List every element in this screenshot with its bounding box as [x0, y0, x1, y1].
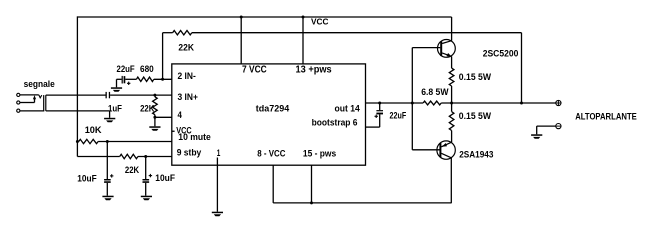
resistor R2 22K vertical [153, 97, 158, 115]
svg-text:7 VCC: 7 VCC [242, 64, 267, 75]
resistor R5 22K stby [120, 154, 138, 158]
transistor Q2 2SA1943 [437, 141, 455, 159]
node stby cap junction [144, 155, 147, 158]
wire C4 drop [106, 142, 108, 180]
wire pin8 drop [272, 165, 274, 203]
node pin3 junction [153, 94, 156, 97]
wire pin13 +pws drop [302, 17, 304, 64]
node mute row left junction [76, 140, 79, 143]
svg-text:10uF: 10uF [155, 173, 175, 184]
wire C2 ground lead [116, 79, 118, 87]
svg-text:22K: 22K [178, 43, 194, 54]
svg-text:bootstrap 6: bootstrap 6 [312, 118, 358, 129]
node bases junction [411, 102, 414, 105]
node emitters junction [450, 102, 453, 105]
svg-text:9 stby: 9 stby [177, 148, 202, 159]
wire pin15 drop [311, 165, 313, 203]
svg-text:22uF: 22uF [117, 64, 135, 75]
ground sleeve [104, 118, 115, 120]
connector J1 terminal tip [17, 93, 20, 96]
svg-text:8 - VCC: 8 - VCC [257, 149, 285, 160]
wire Q1 collector to VCC [451, 17, 453, 41]
wire mute row to pin10 [98, 141, 172, 143]
ground pin4 [149, 126, 160, 128]
wire jack switch arrow stem [34, 99, 36, 103]
svg-text:10K: 10K [85, 125, 102, 136]
svg-text:tda7294: tda7294 [256, 103, 290, 114]
svg-text:13 +pws: 13 +pws [296, 64, 333, 75]
polarity plus C4 [110, 175, 113, 177]
capacitor C6 plate thick [376, 113, 383, 115]
wire sleeve ground drop [109, 111, 111, 118]
svg-text:2SA1943: 2SA1943 [459, 149, 493, 160]
wire pin7 VCC drop [240, 17, 242, 64]
ground speaker [531, 134, 542, 136]
wire bases riser [411, 48, 413, 150]
svg-text:0.15 5W: 0.15 5W [459, 111, 492, 122]
svg-text:6.8 5W: 6.8 5W [421, 87, 449, 98]
jack plug ring 1 [43, 95, 45, 111]
terminal speaker plus [556, 100, 561, 105]
svg-text:2SC5200: 2SC5200 [483, 48, 519, 59]
capacitor C2 22uF plate thin [122, 76, 123, 84]
wire Q1 emitter lead [451, 56, 453, 68]
resistor R6 6.8 5W [423, 101, 441, 105]
wire VCC top rail [77, 16, 451, 18]
node pin2 junction [161, 78, 164, 81]
node pin4 junction [153, 116, 156, 119]
node VCC junction pin7 tap [240, 16, 243, 19]
wire jack body bottom line [46, 110, 110, 112]
wire R6 to emitters junction [441, 102, 556, 104]
wire R3 to pin2 [154, 78, 172, 80]
svg-text:ALTOPARLANTE: ALTOPARLANTE [575, 112, 637, 123]
connector J1 terminal sleeve [17, 109, 20, 112]
wire Q1 base lead [412, 47, 440, 49]
wire jack switch lead [20, 102, 35, 104]
svg-text:0.15 5W: 0.15 5W [459, 72, 492, 83]
svg-text:VCC: VCC [311, 17, 328, 27]
jack switch contact v mark [39, 95, 42, 98]
polarity plus C5 [149, 175, 152, 177]
op-amp IC U1 tda7294 box [172, 64, 366, 165]
wire Q2 base lead [412, 149, 439, 151]
svg-text:1uF: 1uF [108, 103, 122, 114]
svg-text:15 - pws: 15 - pws [303, 149, 336, 160]
capacitor C5 10uF plates [142, 179, 149, 181]
wire pin14 out stub [366, 102, 424, 104]
capacitor C1 1uF plate b [109, 92, 110, 98]
jack switch arrow head [33, 95, 36, 99]
wire R8 to Q2 emitter [451, 131, 453, 143]
wire C6 top lead [379, 103, 381, 110]
transistor Q1 2SC5200 [438, 40, 456, 58]
connector J1 terminal switch [17, 101, 20, 104]
polarity plus C2 [127, 82, 130, 84]
svg-text:1: 1 [217, 148, 221, 159]
svg-text:10uF: 10uF [77, 173, 97, 184]
terminal speaker minus [556, 124, 561, 129]
wire jack tip lead [20, 94, 39, 96]
wire -vcc bottom rail [273, 202, 451, 204]
node feedback-output junction [520, 102, 523, 105]
capacitor C1 1uF plate a [106, 92, 107, 98]
wire Q2 collector drop [450, 158, 452, 203]
wire C1 to pin3 [110, 94, 172, 96]
wire C6 bottom lead [379, 114, 381, 127]
ground C4 [102, 196, 113, 198]
wire C5 drop [145, 157, 147, 180]
capacitor C6 22uF bootstrap plate thin [376, 110, 383, 111]
node -vcc junction [310, 201, 313, 204]
svg-text:10 mute: 10 mute [178, 132, 211, 143]
wire pin1 drop [216, 158, 218, 212]
polarity plus C6 [375, 115, 378, 117]
svg-text:2 IN-: 2 IN- [178, 71, 196, 82]
wire stby row left segment [77, 156, 119, 158]
resistor R7 0.15 5W upper [449, 68, 454, 86]
svg-text:680: 680 [140, 64, 154, 75]
svg-text:out 14: out 14 [335, 104, 361, 115]
ground feedback C2 [111, 87, 122, 89]
wire C2 to R3 [125, 78, 136, 80]
pin label - VCC left [172, 131, 175, 132]
svg-text:segnale: segnale [24, 79, 55, 89]
wire R7 to rail [451, 86, 453, 112]
node mute cap junction [106, 140, 109, 143]
wire feedback riser [162, 33, 164, 80]
wire pin4 ground drop [154, 117, 156, 126]
resistor R3 680 [136, 77, 153, 81]
node out-bootstrap junction [378, 102, 381, 105]
resistor R4 10K [79, 139, 98, 143]
svg-text:4: 4 [178, 110, 183, 121]
node VCC junction pin13 tap [302, 16, 305, 19]
svg-text:22K: 22K [125, 165, 139, 176]
wire jack sleeve lead [20, 110, 44, 112]
resistor R1 22K feedback [173, 31, 192, 35]
svg-text:22uF: 22uF [390, 110, 407, 121]
capacitor C4 10uF plates [104, 179, 111, 181]
ground pin1 [212, 212, 223, 214]
wire speaker minus to ground [537, 125, 556, 127]
wire jack body top line to C1 [46, 94, 106, 96]
svg-text:3 IN+: 3 IN+ [178, 92, 199, 103]
wire feedback long run to output [192, 32, 522, 34]
jack plug ring 2 [45, 95, 47, 111]
wire pin4 stub [155, 116, 172, 118]
wire bootstrap pin6 stub [366, 126, 380, 128]
ground C5 [141, 196, 152, 198]
svg-text:22K: 22K [140, 103, 154, 114]
capacitor C2 22uF plate thick [124, 76, 126, 83]
resistor R8 0.15 5W lower [449, 112, 454, 131]
wire VCC left rail down to stby row [76, 16, 78, 156]
wire stby row to pin9 [138, 156, 172, 158]
wire feedback drop to output rail [521, 33, 523, 103]
